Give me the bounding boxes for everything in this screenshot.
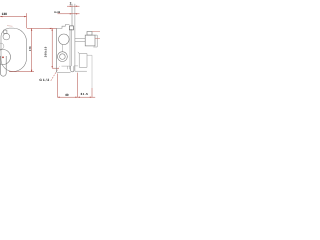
- svg-text:G1/2: G1/2: [39, 78, 50, 82]
- bottom dimension line: [57, 96, 95, 98]
- extension line top (plate top): [27, 27, 57, 29]
- wall back line: [74, 28, 76, 72]
- faint red mark above plate: [7, 25, 13, 28]
- ledge to right extension: [87, 54, 92, 56]
- view bottom edge: [57, 71, 71, 73]
- diverter knob stem: [4, 30, 7, 33]
- handle red center dot: [2, 56, 4, 58]
- mounting box at wall: [69, 26, 73, 30]
- bottom dimension extensions: [56, 74, 58, 98]
- vertical dimension line 200±10: [51, 29, 53, 69]
- lower body box: [78, 52, 87, 67]
- wall front lines: [69, 29, 71, 66]
- small ring (clipped at left edge): [0, 43, 4, 49]
- small lines above outlet stub: [62, 65, 71, 67]
- plate outline: [1, 28, 27, 71]
- diverter knob circle: [3, 33, 10, 40]
- leader dashed to outlet: [51, 67, 60, 81]
- outlet stub U: [71, 66, 74, 72]
- extension for 200±10 bottom: [52, 67, 58, 69]
- valve body top step: [87, 32, 92, 36]
- svg-text:40: 40: [65, 93, 69, 97]
- extension lines up: [71, 4, 73, 26]
- dimension line 2: [67, 5, 80, 7]
- dimension line 8÷38: [58, 13, 80, 15]
- extension line bottom (plate bottom): [9, 71, 34, 73]
- svg-text:61.5: 61.5: [81, 92, 89, 96]
- top stepped profile: [57, 25, 70, 29]
- red stubs right: [92, 31, 100, 33]
- svg-text:200±10: 200±10: [45, 46, 48, 57]
- extension gray down right: [91, 55, 93, 88]
- svg-text:138: 138: [2, 12, 8, 16]
- plate front edge: [56, 28, 58, 72]
- handle rosette circle: [0, 50, 11, 65]
- vertical dimension line 170: [31, 29, 33, 73]
- outlet double circle outer: [58, 52, 68, 62]
- bottom line behind wall: [75, 70, 87, 72]
- cartridge circle: [59, 34, 70, 45]
- svg-text:2: 2: [70, 2, 72, 6]
- extension line right of 138: [26, 13, 28, 28]
- neck segment: [61, 45, 63, 52]
- outlet double circle inner: [60, 54, 66, 60]
- svg-text:170: 170: [29, 46, 32, 51]
- dimension 138 line: [0, 16, 26, 18]
- handle lever: [0, 56, 6, 76]
- supply pipes: [75, 38, 85, 41]
- small arrow on top extension: [49, 28, 51, 29]
- right bracket: [93, 35, 97, 47]
- valve body box: [85, 35, 95, 46]
